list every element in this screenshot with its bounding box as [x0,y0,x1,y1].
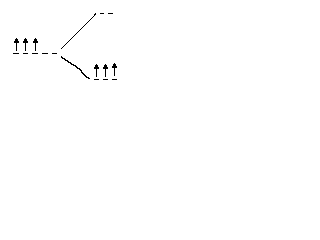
degenerate level (left), dashed line, dash 1 [13,53,19,54]
lower level (bottom right), dash 2 [103,79,108,80]
degenerate level (left), dash 2 [23,53,28,54]
upper level (top right), dash 2 [108,13,113,14]
correlation line up (to upper level) [61,13,96,49]
electron arrow 2 (lower right level) [103,64,108,77]
degenerate level (left), dash 3 [32,53,38,54]
electron arrow 1 (left level) [14,38,19,51]
background [0,0,121,95]
degenerate level (left), dash 5 [52,53,57,54]
electron arrow 3 (left level) [33,38,38,51]
degenerate level (left), dash 4 [42,53,48,54]
upper level (top right), dash 1 [100,13,104,14]
electron arrow 2 (left level) [23,38,28,51]
electron arrow 1 (lower right level) [94,64,99,77]
electron arrow 3 (lower right level) [112,63,117,76]
correlation line down (to lower level) [61,56,90,79]
lower level (bottom right), dash 3 [112,79,117,80]
lower level (bottom right), dash 1 [94,79,99,80]
